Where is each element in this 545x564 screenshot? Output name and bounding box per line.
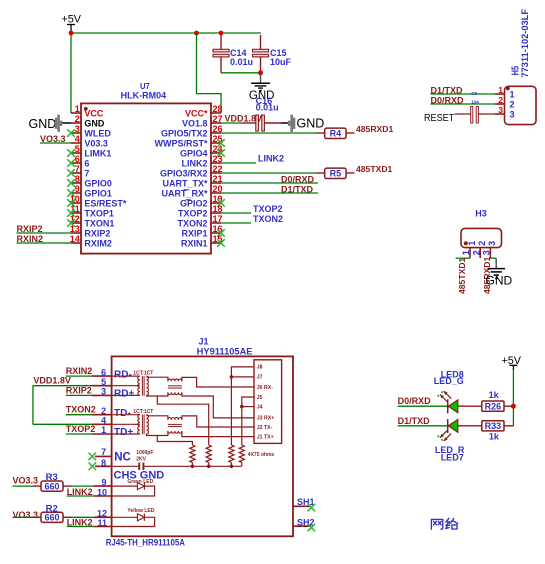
svg-text:J1 TX+: J1 TX+ (257, 434, 274, 440)
svg-text:TXOP1: TXOP1 (84, 208, 114, 218)
label 4X75 ohms (248, 452, 275, 458)
U7 pin 5 LIMK1 (67, 144, 111, 158)
IC U7 body (81, 103, 211, 253)
svg-text:U7: U7 (140, 81, 150, 91)
wire J5/J4 to R 75ohm 4 (240, 397, 254, 445)
svg-text:1k: 1k (489, 432, 500, 442)
wire J8/J7 to R 75ohm 3 (230, 367, 254, 445)
wire T1 tap to R 75ohm 2 (157, 396, 208, 445)
J1 pin 2 TD- (66, 405, 131, 419)
connector J1 body (112, 356, 293, 536)
H3 pin 3 (482, 241, 498, 258)
svg-text:7: 7 (84, 168, 89, 178)
J1 pin 4 (33, 416, 112, 426)
svg-text:4: 4 (75, 134, 80, 144)
svg-text:D1/TXD: D1/TXD (398, 416, 431, 426)
svg-text:RXIP2: RXIP2 (66, 385, 92, 395)
power flag GND at U7 pin 2 (29, 115, 72, 132)
label U7 reference (140, 81, 150, 91)
connector H3 body (461, 228, 502, 247)
green LED inside J1 (112, 479, 155, 496)
junction C14 top (219, 31, 224, 36)
svg-text:HY911105AE: HY911105AE (197, 346, 253, 356)
label 485RXD1 (356, 124, 393, 134)
junction pin28 branch (194, 31, 199, 36)
label VO3.3 at R3 (13, 476, 39, 486)
wire +5V horizontal rail (71, 32, 261, 34)
plug row J7 (257, 375, 263, 381)
svg-text:WWPS/RST*: WWPS/RST* (155, 138, 208, 148)
svg-text:J5: J5 (257, 395, 263, 401)
svg-text:13: 13 (70, 224, 80, 234)
svg-text:6: 6 (101, 367, 106, 377)
svg-text:3: 3 (75, 124, 80, 134)
power +5V at LEDs (502, 355, 522, 370)
U7 pin 23 LINK2 (181, 154, 222, 168)
J1 pin 3 RD+ (66, 385, 135, 399)
svg-text:VO1.8: VO1.8 (182, 118, 208, 128)
junction C15 bottom (258, 70, 263, 75)
svg-text:1: 1 (75, 104, 80, 114)
U7 pin 22 GPIO3/RX2 (160, 164, 223, 178)
J1 pin 12 (72, 509, 111, 519)
svg-text:VO3.3: VO3.3 (13, 510, 39, 520)
svg-text:5: 5 (75, 144, 80, 154)
junction R3 bottom (230, 465, 234, 469)
capacitor C15 (253, 35, 292, 73)
svg-text:3: 3 (487, 241, 497, 246)
svg-text:RXIP1: RXIP1 (181, 228, 207, 238)
power +5V (62, 13, 82, 33)
svg-text:TXON2: TXON2 (177, 218, 207, 228)
resistor R3 660 (33, 472, 72, 491)
plug row J8 (257, 365, 263, 371)
svg-text:J8: J8 (257, 365, 263, 371)
wire T2 tap to R 75ohm 1 (157, 436, 192, 446)
label H5 value 77311-102-03LF (520, 9, 531, 78)
connector H5 body (505, 86, 537, 124)
svg-text:8: 8 (101, 458, 106, 468)
svg-text:J4: J4 (257, 404, 263, 410)
label J1 footprint RJ45-TH_HR911105A (106, 537, 186, 547)
label D1/TXD to H5 pin 1 (431, 86, 496, 96)
yellow LED inside J1 (112, 508, 155, 526)
resistor 75ohm 2 (206, 445, 211, 466)
svg-text:Yellow LED: Yellow LED (127, 508, 154, 514)
J1 pin 10 (93, 488, 111, 498)
svg-text:GPIO5/TX2: GPIO5/TX2 (161, 128, 208, 138)
U7 pin 17 TXON2 (177, 214, 222, 228)
svg-text:WLED: WLED (84, 128, 111, 138)
label wangluo (network) (431, 518, 457, 529)
svg-text:J6 RX-: J6 RX- (257, 385, 273, 391)
J1 pin 9 (72, 477, 111, 487)
svg-text:J3 RX+: J3 RX+ (257, 416, 274, 422)
svg-text:2: 2 (498, 95, 503, 105)
svg-text:V03.3: V03.3 (84, 138, 108, 148)
U7 pin 21 UART_TX* (162, 174, 222, 188)
svg-text:RXIP2: RXIP2 (84, 228, 110, 238)
label J1 reference (199, 336, 209, 346)
U7 pin 20 UART_RX* (161, 184, 222, 198)
wire choke2 to J2 (182, 416, 254, 427)
label VO3.3 at R2 (13, 510, 39, 520)
svg-text:485RXD1: 485RXD1 (356, 124, 393, 134)
svg-text:77311-102-03LF: 77311-102-03LF (520, 9, 531, 78)
label D1/TXD at U7 pin 20 (221, 184, 318, 194)
svg-text:GPIO2: GPIO2 (180, 198, 208, 208)
wire C14/C15 bottom (221, 72, 261, 74)
svg-text:3: 3 (498, 105, 503, 115)
resistor 75ohm 4 (239, 445, 244, 466)
J1 pin 11 (93, 518, 111, 528)
choke L2 TX (168, 418, 182, 434)
resistor R4 (317, 128, 355, 139)
U7 pin 27 VO1.8 (182, 114, 223, 128)
svg-text:1: 1 (461, 250, 471, 255)
label LINK2 at J1 pin 11 (67, 518, 94, 528)
wire pin27 to C16 (221, 122, 242, 124)
svg-text:7: 7 (75, 164, 80, 174)
svg-text:HLK-RM04: HLK-RM04 (121, 91, 167, 101)
svg-text:RXIN1: RXIN1 (181, 238, 208, 248)
svg-text:14: 14 (70, 234, 80, 244)
label D0/RXD at U7 pin 21 (221, 174, 318, 184)
label TXON2 at U7 pin 17 (221, 214, 283, 224)
svg-text:9: 9 (101, 477, 106, 487)
label LED7 ref (441, 453, 464, 463)
svg-text:TXOP2: TXOP2 (178, 208, 208, 218)
junction R26 (511, 404, 516, 409)
svg-text:2: 2 (510, 100, 515, 110)
LED LED8 (437, 391, 458, 413)
U7 pin 19 GPIO2 (180, 194, 225, 208)
ground GND below H3 (486, 269, 513, 288)
J1 pin 7 NC (89, 447, 131, 463)
H5 pin 2 (495, 95, 515, 109)
junction R1 bottom (191, 465, 195, 469)
svg-text:7: 7 (101, 447, 106, 457)
svg-text:10uF: 10uF (270, 57, 292, 67)
U7 pin 24 GPIO4 (180, 144, 225, 158)
svg-text:R26: R26 (485, 401, 502, 411)
svg-text:LED_G: LED_G (434, 376, 464, 386)
svg-text:2: 2 (101, 406, 106, 416)
resistor R5 (317, 168, 355, 179)
svg-text:LINK2: LINK2 (181, 158, 207, 168)
resistor R26 (482, 390, 514, 412)
U7 pin 11 TXOP1 (67, 204, 114, 218)
svg-text:LINK2: LINK2 (258, 154, 284, 164)
plug row J6 RX- (257, 385, 273, 391)
J1 pin 5 VDD1.8V (33, 375, 112, 387)
wire choke1 to J6 (182, 377, 254, 387)
svg-text:8: 8 (75, 174, 80, 184)
capacitor C16 (242, 96, 282, 131)
svg-text:VO3.3: VO3.3 (13, 476, 39, 486)
label RESET (424, 113, 455, 124)
svg-text:GND: GND (84, 118, 105, 128)
svg-text:D0/RXD: D0/RXD (398, 396, 432, 406)
wire +5V down to U7 pin 1 (70, 33, 72, 113)
svg-text:RD-: RD- (114, 369, 132, 380)
svg-text:UART_TX*: UART_TX* (162, 178, 208, 188)
U7 pin 3 WLED (67, 124, 111, 138)
svg-text:0.01u: 0.01u (230, 57, 253, 67)
svg-text:TD+: TD+ (114, 427, 133, 438)
label RXIP2 at U7 pin 13 (17, 224, 72, 234)
svg-text:TXON2: TXON2 (253, 214, 283, 224)
svg-text:ES/REST*: ES/REST* (84, 198, 127, 208)
LED LED7 (437, 419, 458, 441)
svg-text:3: 3 (482, 250, 492, 255)
svg-text:TXON2: TXON2 (66, 405, 96, 415)
svg-text:RJ45-TH_HR911105A: RJ45-TH_HR911105A (106, 537, 186, 547)
label LED_G (434, 376, 464, 386)
svg-text:H3: H3 (475, 208, 487, 218)
capacitor C9 on RESET line (455, 91, 496, 123)
svg-text:2: 2 (477, 241, 487, 246)
svg-text:RXIM2: RXIM2 (84, 238, 112, 248)
svg-text:104: 104 (471, 99, 479, 104)
svg-text:RESET: RESET (424, 113, 455, 124)
svg-text:660: 660 (44, 513, 59, 523)
svg-text:LED7: LED7 (441, 453, 464, 463)
svg-text:4X75 ohms: 4X75 ohms (248, 452, 275, 458)
label 1CT:1CT bottom (133, 409, 153, 415)
label D0/RXD to LED8 (398, 396, 448, 406)
svg-text:R4: R4 (330, 129, 342, 139)
svg-text:1000pF: 1000pF (136, 450, 153, 456)
svg-text:NC: NC (114, 451, 131, 463)
svg-text:GND: GND (297, 117, 325, 131)
label D1/TXD to LED7 (398, 416, 448, 426)
svg-text:VCC*: VCC* (185, 108, 208, 118)
port SH1 (293, 497, 315, 511)
U7 pin 12 TXON1 (67, 214, 114, 228)
svg-text:VCC: VCC (84, 108, 104, 118)
J1 pin 6 RD- (66, 366, 132, 380)
svg-text:1: 1 (498, 85, 503, 95)
svg-text:J7: J7 (257, 375, 263, 381)
svg-text:GPIO1: GPIO1 (84, 188, 112, 198)
svg-text:VO3.3: VO3.3 (40, 134, 66, 144)
U7 pin 6 6 (67, 154, 89, 168)
svg-text:C9: C9 (471, 91, 477, 96)
label RXIN2 at U7 pin 14 (17, 234, 72, 244)
wire LED7 to R33 (458, 425, 482, 427)
label CHS GND (114, 470, 165, 482)
svg-text:GPIO3/RX2: GPIO3/RX2 (160, 168, 208, 178)
label 485RXD1 vertical (482, 257, 492, 294)
wire to U7 pin 28 (197, 33, 222, 113)
U7 pin 8 GPIO0 (67, 174, 112, 188)
plug row J1 TX+ (257, 434, 274, 440)
U7 pin 9 GPIO1 (67, 184, 112, 198)
ground GND below C15 (249, 73, 275, 102)
svg-text:11: 11 (97, 518, 107, 528)
H5 pin 3 (495, 105, 515, 119)
U7 pin 25 WWPS/RST* (155, 134, 225, 148)
H5 pin 1 (495, 85, 515, 99)
svg-text:TD-: TD- (114, 408, 131, 419)
svg-text:GND: GND (29, 117, 57, 131)
junction R2 bottom (207, 465, 211, 469)
svg-text:485TXD1: 485TXD1 (457, 257, 467, 294)
plug row J4 (257, 404, 263, 410)
svg-text:0.01u: 0.01u (256, 103, 279, 113)
svg-text:660: 660 (44, 482, 59, 492)
svg-text:5: 5 (101, 377, 106, 387)
plug row J2 TX- (257, 425, 273, 431)
plug row J3 RX+ (257, 416, 274, 422)
U7 pin 7 7 (67, 164, 89, 178)
svg-text:1k: 1k (489, 390, 500, 400)
resistor R2 660 (33, 503, 72, 522)
label VO3.3 at U7 pin 4 (40, 134, 71, 144)
capacitor C14 (213, 35, 253, 73)
svg-text:GPIO4: GPIO4 (180, 148, 208, 158)
label TXOP2 at U7 pin 18 (221, 204, 283, 214)
svg-text:3: 3 (510, 110, 515, 120)
label LINK2 at J1 pin 10 (67, 487, 94, 497)
port SH2 (293, 517, 315, 531)
label J1 value HY911105AE (197, 346, 253, 356)
label H3 reference (475, 208, 487, 218)
wire +5V down to resistors (512, 370, 514, 426)
svg-text:485TXD1: 485TXD1 (356, 164, 393, 174)
resistor 75ohm 3 (229, 445, 234, 466)
svg-text:R33: R33 (485, 421, 502, 431)
wire H3 pin3 to ground (490, 258, 496, 268)
svg-text:10: 10 (97, 488, 107, 498)
U7 pin 1 VCC (71, 104, 104, 118)
power flag GND right of C16 (281, 115, 324, 132)
wire H3 pin1 (456, 257, 470, 259)
U7 pin 14 RXIM2 (70, 234, 112, 248)
wire LED8 to R26 (458, 405, 482, 407)
U7 pin 13 RXIP2 (70, 224, 111, 238)
label 1CT:1CT top (133, 371, 153, 377)
wire pin26 to R4 (221, 132, 317, 134)
wire choke2 to J1TX (182, 431, 254, 437)
svg-text:VDD1.8V: VDD1.8V (33, 375, 71, 385)
svg-text:28: 28 (213, 104, 223, 114)
svg-text:1: 1 (467, 241, 477, 246)
label 485TXD1 (356, 164, 393, 174)
wire VDD1.8V join pins 5 and 4 (32, 386, 34, 425)
junction +5V corner (69, 31, 74, 36)
wire choke1 to J3 (182, 392, 254, 418)
svg-text:9: 9 (75, 184, 80, 194)
J1 pin 1 TD+ (66, 424, 134, 438)
svg-text:2KV: 2KV (136, 457, 146, 463)
label VDD1.8V at U7 pin 27 (225, 113, 263, 123)
resistor 75ohm 1 (190, 445, 195, 466)
capacitor 1000pF 2KV (112, 450, 242, 470)
label H5 reference (509, 66, 521, 76)
wire pin22 to R5 (221, 172, 317, 174)
svg-text:TXOP2: TXOP2 (253, 204, 283, 214)
svg-text:RD+: RD+ (114, 389, 134, 400)
U7 pin 4 V03.3 (71, 134, 108, 148)
plug row J5 (257, 395, 263, 401)
U7 pin 15 RXIN1 (181, 234, 225, 248)
H3 pin 2 (471, 241, 487, 258)
transformer T2 TX (112, 415, 168, 436)
U7 pin 16 RXIP1 (181, 224, 224, 238)
svg-text:6: 6 (84, 158, 89, 168)
svg-text:J1: J1 (199, 336, 209, 346)
U7 pin 18 TXOP2 (178, 204, 223, 218)
svg-text:TXON1: TXON1 (84, 218, 114, 228)
label LINK2 at U7 pin 23 (221, 154, 284, 164)
svg-text:3: 3 (101, 387, 106, 397)
U7 pin 26 GPIO5/TX2 (161, 124, 223, 138)
svg-text:R5: R5 (330, 169, 342, 179)
svg-text:GPIO0: GPIO0 (84, 178, 112, 188)
label LED8 (441, 369, 464, 379)
svg-text:2: 2 (75, 114, 80, 124)
label 485TXD1 vertical (457, 257, 467, 294)
svg-text:LIMK1: LIMK1 (84, 148, 111, 158)
svg-text:2: 2 (471, 250, 481, 255)
svg-text:+5V: +5V (62, 13, 82, 25)
resistor R33 (482, 421, 514, 442)
H3 pin 1 (461, 241, 477, 258)
svg-text:TXOP2: TXOP2 (66, 424, 96, 434)
svg-text:4: 4 (101, 416, 106, 426)
J1 pin 8 NC (89, 458, 112, 470)
choke L1 RX (168, 379, 182, 395)
svg-text:J2 TX-: J2 TX- (257, 425, 273, 431)
U7 pin 10 ES/REST* (67, 194, 127, 208)
svg-text:1: 1 (510, 90, 515, 100)
U7 pin 28 VCC* (185, 104, 223, 118)
label LED_R (435, 445, 465, 455)
svg-text:1: 1 (101, 425, 106, 435)
plug pins box (254, 360, 282, 444)
U7 pin 2 GND (71, 114, 105, 128)
label D0/RXD to H5 pin 2 (431, 96, 496, 106)
svg-text:6: 6 (75, 154, 80, 164)
svg-text:GND: GND (486, 273, 513, 287)
transformer T1 RX (112, 376, 168, 396)
label U7 value HLK-RM04 (121, 91, 167, 101)
